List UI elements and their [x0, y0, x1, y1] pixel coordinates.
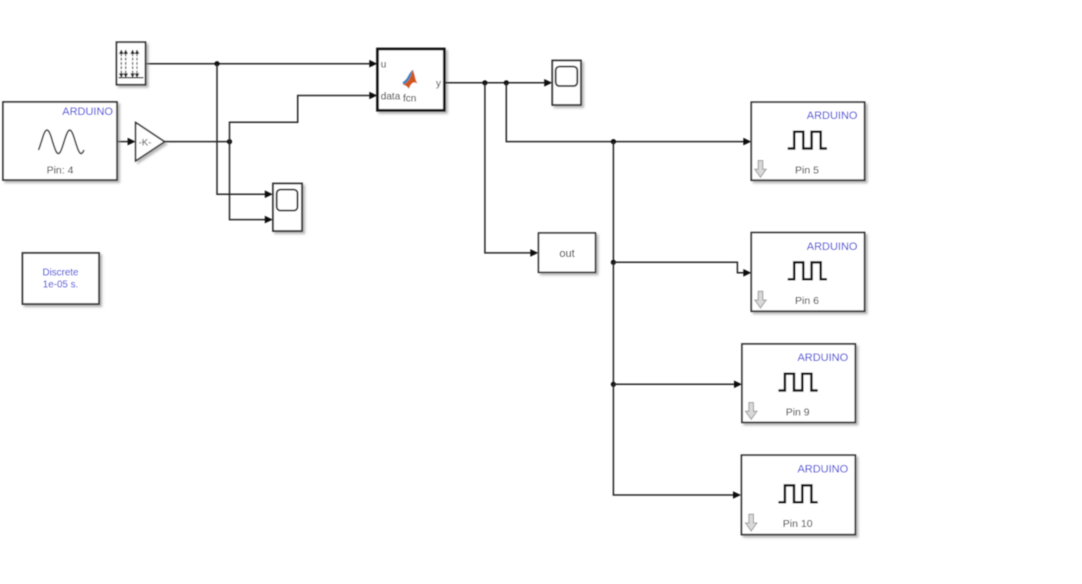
gain block -K- — [136, 123, 165, 161]
wire: pulse source to fcn input u — [146, 63, 370, 65]
svg-text:ARDUINO: ARDUINO — [797, 464, 848, 476]
svg-text:-K-: -K- — [139, 138, 152, 149]
Arduino Analog Input block (Pin: 4) — [3, 102, 117, 180]
PWM square wave icon — [778, 374, 817, 391]
node: junction at (506.3,82.8) — [504, 80, 509, 85]
node: junction at (229.5,141.6) — [227, 139, 232, 144]
svg-text:Pin 9: Pin 9 — [786, 407, 810, 419]
PWM Pin 9 block — [742, 344, 855, 422]
Discrete sample time annotation block — [23, 253, 100, 304]
svg-text:Pin 10: Pin 10 — [783, 518, 813, 530]
PWM Pin 6 block — [751, 233, 864, 312]
pulse generator source block — [117, 42, 146, 84]
node: junction at (613.4,141.6) — [611, 139, 616, 144]
pulse source stem icon — [119, 54, 144, 78]
svg-text:ARDUINO: ARDUINO — [62, 106, 113, 118]
scope screen — [556, 67, 578, 86]
wire: junction to PWM Pin 9 — [613, 383, 734, 385]
svg-text:data: data — [381, 92, 401, 103]
svg-text:Discrete: Discrete — [43, 268, 79, 279]
svg-text:u: u — [381, 60, 387, 71]
wire: analog input to gain — [117, 141, 129, 143]
download arrow icon — [746, 403, 757, 420]
PWM Pin 5 block — [751, 102, 864, 180]
scope (two inputs) — [273, 184, 302, 232]
sine wave icon — [39, 130, 85, 154]
svg-text:Pin 5: Pin 5 — [795, 165, 819, 177]
PWM square wave icon — [788, 132, 827, 149]
wire: junction up to fcn input data — [230, 96, 370, 142]
PWM square wave icon — [778, 485, 817, 502]
wire: junction down to scope input 2 — [230, 142, 266, 220]
node: junction at (217,63.7) — [214, 61, 219, 66]
svg-text:ARDUINO: ARDUINO — [797, 352, 848, 364]
scope screen — [277, 190, 298, 211]
wire: bus down from Pin5 line — [612, 142, 614, 263]
scope (one input) — [552, 61, 581, 105]
wire: fcn y output to scope — [445, 82, 545, 84]
svg-text:Pin: 4: Pin: 4 — [47, 165, 74, 177]
MATLAB logo — [403, 70, 413, 85]
MATLAB Function block fcn — [378, 49, 445, 110]
wire: bus down and to PWM Pin 10 — [613, 384, 733, 495]
svg-text:out: out — [559, 248, 574, 260]
node: junction at (613.4,262.3) — [611, 260, 616, 265]
svg-text:1e-05 s.: 1e-05 s. — [43, 280, 78, 291]
wire: junction down to out block — [485, 83, 531, 253]
wire: bus down to Pin 9 level — [612, 262, 614, 384]
wire: gain output to junction — [165, 141, 230, 143]
PWM square wave icon — [788, 262, 827, 279]
wire: junction to PWM Pin 6 — [613, 262, 743, 273]
svg-text:fcn: fcn — [403, 93, 416, 104]
PWM Pin 10 block — [742, 455, 856, 534]
svg-text:ARDUINO: ARDUINO — [807, 110, 858, 122]
out block — [539, 233, 596, 272]
download arrow icon — [755, 291, 766, 308]
node: junction at (484.9,82.8) — [482, 80, 487, 85]
svg-text:Pin 6: Pin 6 — [795, 295, 819, 307]
download arrow icon — [755, 161, 766, 178]
node: junction at (613.4,384.3) — [611, 382, 616, 387]
svg-text:ARDUINO: ARDUINO — [807, 241, 858, 253]
wire: junction down to scope input 1 — [217, 64, 265, 195]
wire: junction to PWM Pin 5 — [506, 83, 744, 142]
svg-text:y: y — [436, 79, 441, 90]
download arrow icon — [746, 514, 757, 531]
